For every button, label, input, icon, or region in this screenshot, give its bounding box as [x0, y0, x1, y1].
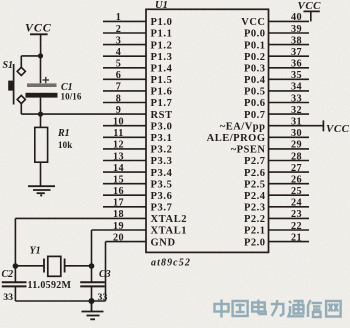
U1 pin 29 (~PSEN) wire, number and label: [231, 140, 309, 156]
node: junction dot XTAL2 / Y1 left: [13, 263, 19, 269]
resistor R1 body: [35, 127, 48, 162]
C1 value 10/16: [61, 91, 82, 101]
capacitor C1 (electrolytic) plates: [26, 83, 58, 97]
wire: GND net from U1 pin 20: [106, 241, 147, 243]
U1 pin 35 (P0.4) wire, number and label: [244, 70, 309, 86]
U1 pin 30 (ALE/PROG) wire, number and label: [207, 128, 309, 144]
wire: S1 bottom contact down to RST net: [20, 103, 22, 114]
VCC power tap on pin 31 (~EA/Vpp): [323, 120, 349, 135]
node: junction dot ground rail: [89, 298, 95, 304]
capacitor C3 plates: [80, 282, 105, 286]
scan noise texture (decorative): [0, 0, 1, 1]
U1 pin 33 (P0.6) wire, number and label: [244, 93, 309, 109]
U1 pin 17 (P3.7) wire, number and label: [103, 198, 172, 214]
VCC power symbol (top left): [25, 21, 52, 56]
capacitor C2 plates: [2, 282, 27, 286]
wire: C1 bottom plate to RST net: [40, 98, 42, 115]
U1 pin 2 (P1.1) wire, number and label: [103, 24, 172, 40]
U1 pin 13 (P3.3) wire, number and label: [103, 151, 172, 167]
VCC power symbol (top right, pin 40): [298, 0, 322, 21]
ground symbol (crystal circuit): [82, 301, 104, 319]
wire: to crystal Y1 left plate: [15, 265, 44, 267]
U1 pin 10 (P3.0) wire, number and label: [103, 117, 172, 133]
U1 pin 18 (XTAL2) wire, number and label: [113, 209, 187, 225]
U1 pin 8 (P1.7) wire, number and label: [103, 93, 172, 109]
C3 value 33: [98, 292, 108, 303]
U1 pin 27 (P2.6) wire, number and label: [244, 163, 309, 179]
U1 pin 23 (P2.2) wire, number and label: [244, 209, 309, 225]
U1 pin 21 (P2.0) wire, number and label: [244, 232, 309, 248]
op-amp-style IC body: microcontroller U1 (AT89C52): [146, 9, 269, 252]
watermark text 中国电力通信网 (drawn): [215, 300, 341, 318]
U1 pin 15 (P3.5) wire, number and label: [103, 175, 172, 191]
pushbutton switch S1: [8, 64, 25, 105]
wire: R1 bottom to ground: [40, 162, 42, 186]
U1 pin 26 (P2.5) wire, number and label: [244, 175, 309, 191]
U1 pin 1 (P1.0) wire, number and label: [103, 12, 172, 28]
wire: XTAL1 net from U1 pin 19: [92, 229, 147, 231]
wire: C2 bottom to ground rail: [14, 287, 16, 302]
wire: VCC node down to C1 + plate: [40, 56, 42, 83]
U1 pin 39 (P0.0) wire, number and label: [244, 24, 309, 40]
wire: bottom ground rail: [15, 300, 105, 302]
U1 pin 3 (P1.2) wire, number and label: [103, 35, 172, 51]
R1 designator: [57, 128, 70, 139]
U1 reference designator: [155, 0, 168, 11]
capacitor C1 polarity + sign: [43, 77, 50, 83]
U1 pin 31 (~EA/Vpp) wire, number and label: [220, 117, 324, 133]
U1 pin 11 (P3.1) wire, number and label: [103, 128, 172, 144]
U1 pin 16 (P3.6) wire, number and label: [103, 186, 172, 202]
U1 pin 25 (P2.4) wire, number and label: [244, 186, 309, 202]
U1 pin 9 (RST) wire, number and label: [116, 105, 173, 121]
node: junction dot VCC branch: [38, 53, 43, 58]
C2 value 33: [3, 292, 13, 303]
wire: XTAL2 column down to C2: [14, 218, 16, 281]
wire: XTAL1 column down to C3: [91, 230, 93, 282]
R1 value 10k: [58, 140, 72, 150]
switch S1 designator: [3, 60, 14, 71]
U1 pin 4 (P1.3) wire, number and label: [103, 47, 172, 63]
U1 pin 28 (P2.7) wire, number and label: [244, 151, 309, 167]
U1 pin 7 (P1.6) wire, number and label: [103, 82, 172, 98]
U1 pin 40 (VCC) wire, number and label: [241, 12, 309, 28]
U1 pin 6 (P1.5) wire, number and label: [103, 70, 172, 86]
wire: C3 bottom to ground rail: [91, 287, 93, 302]
wire: down to S1 top contact: [20, 56, 22, 68]
node: junction dot XTAL1 / Y1 right: [89, 263, 95, 269]
U1 pin 32 (P0.7) wire, number and label: [244, 105, 309, 121]
wire: RST node down to R1: [40, 114, 42, 127]
wire: XTAL2 net from U1 pin 18 to left column: [15, 217, 146, 219]
U1 pin 20 (GND) wire, number and label: [113, 232, 176, 248]
C1 designator: [61, 82, 73, 93]
U1 pin 5 (P1.4) wire, number and label: [103, 59, 173, 75]
U1 pin 37 (P0.2) wire, number and label: [244, 47, 309, 63]
wire: GND column from pin 20 down: [105, 242, 107, 301]
crystal Y1 symbol: [44, 256, 65, 276]
U1 pin 22 (P2.1) wire, number and label: [244, 221, 309, 237]
U1 pin 34 (P0.5) wire, number and label: [244, 82, 309, 98]
node: junction dot RST / R1 top: [38, 112, 43, 117]
U1 pin 14 (P3.4) wire, number and label: [103, 163, 173, 179]
capacitor C2 designator: [2, 269, 14, 280]
U1 pin 38 (P0.1) wire, number and label: [244, 35, 309, 51]
U1 pin 36 (P0.3) wire, number and label: [244, 59, 309, 75]
ground symbol under R1: [28, 186, 55, 196]
capacitor C3 designator: [99, 269, 111, 280]
U1 part value label at89c52: [151, 258, 191, 269]
U1 pin 19 (XTAL1) wire, number and label: [113, 221, 187, 237]
U1 pin 12 (P3.2) wire, number and label: [103, 140, 172, 156]
wire: RST net (S1/C1/R1 node to U1 pin 9): [21, 113, 146, 115]
wire: VCC node to switch branch (horizontal): [21, 55, 40, 57]
wire: crystal right plate to XTAL1 column: [65, 265, 92, 267]
U1 pin 24 (P2.3) wire, number and label: [244, 198, 309, 214]
crystal Y1 designator: [30, 246, 41, 257]
Y1 value 11.0592M: [28, 280, 72, 291]
